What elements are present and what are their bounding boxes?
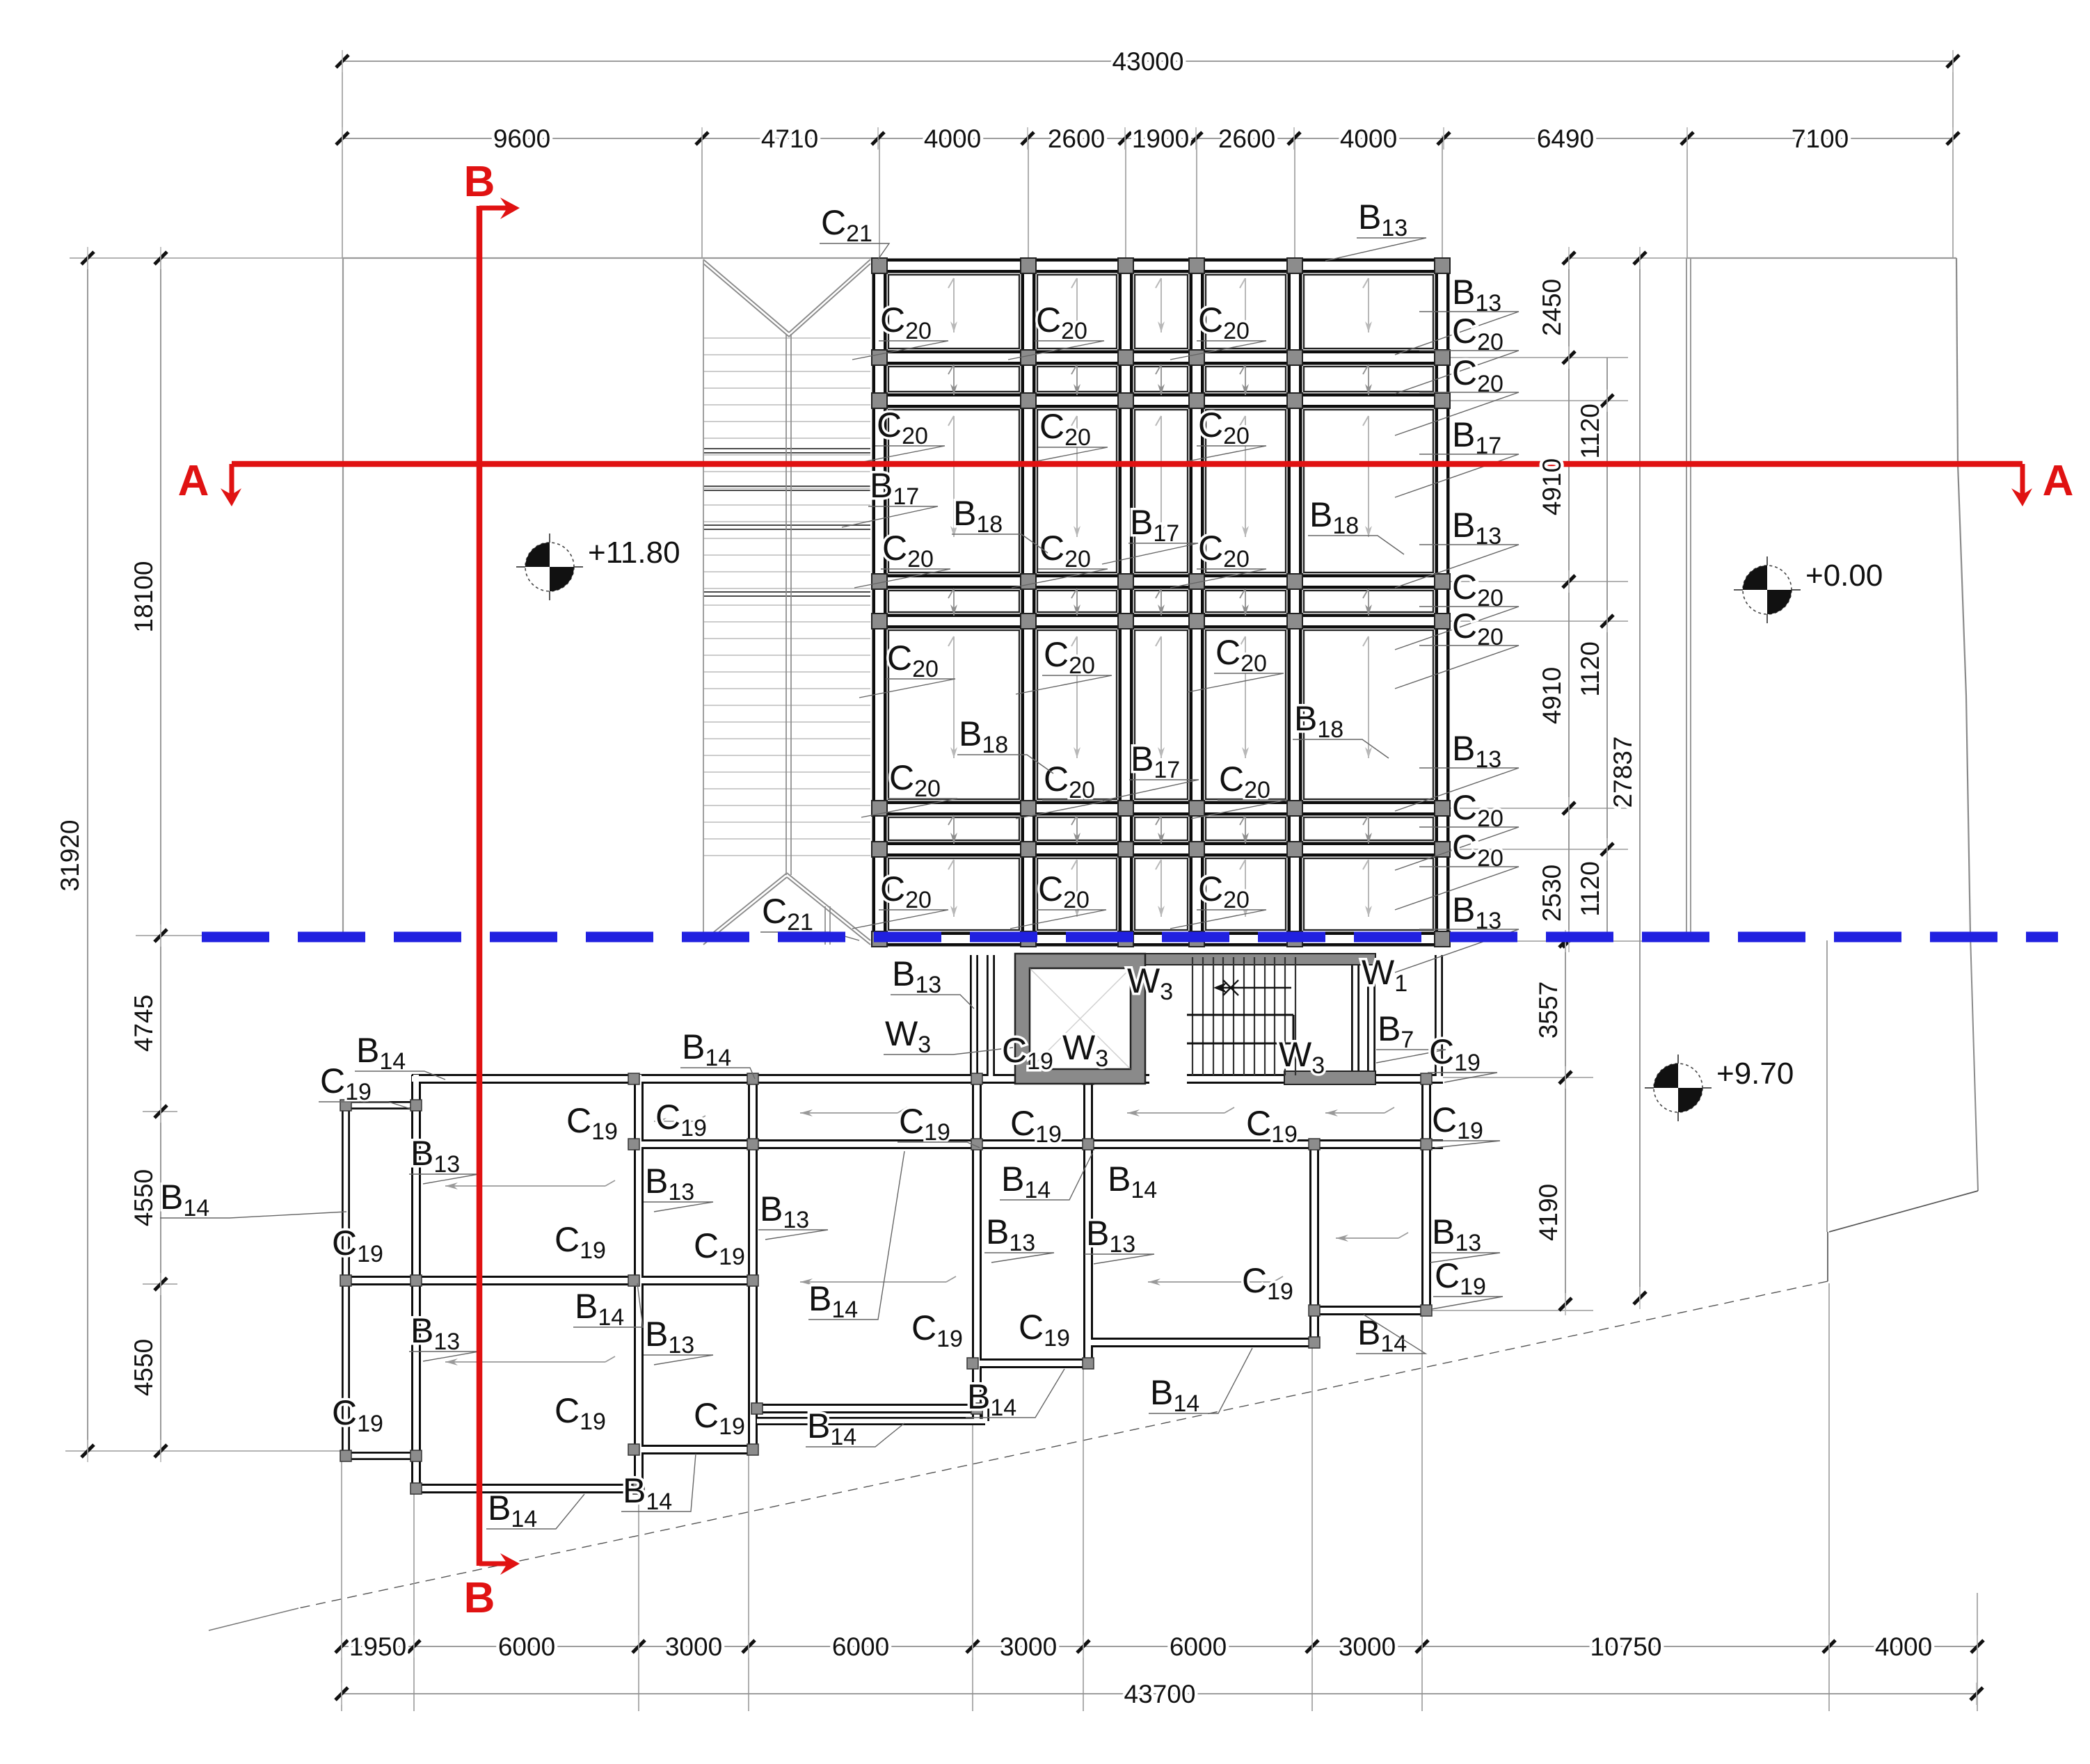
- svg-text:A: A: [178, 457, 209, 505]
- svg-text:2530: 2530: [1538, 865, 1566, 922]
- svg-text:1120: 1120: [1576, 641, 1604, 697]
- svg-text:4910: 4910: [1538, 667, 1566, 724]
- svg-text:6490: 6490: [1537, 125, 1594, 153]
- svg-text:B: B: [464, 158, 495, 206]
- svg-text:4000: 4000: [924, 125, 981, 153]
- svg-text:4190: 4190: [1534, 1184, 1563, 1241]
- svg-text:2450: 2450: [1538, 279, 1566, 336]
- svg-text:1950: 1950: [349, 1633, 406, 1661]
- svg-text:6000: 6000: [1170, 1633, 1227, 1661]
- svg-text:+9.70: +9.70: [1716, 1057, 1794, 1091]
- svg-text:6000: 6000: [498, 1633, 555, 1661]
- svg-text:3557: 3557: [1534, 981, 1563, 1039]
- svg-text:4000: 4000: [1340, 125, 1397, 153]
- svg-text:31920: 31920: [56, 820, 84, 892]
- svg-text:3000: 3000: [665, 1633, 722, 1661]
- svg-text:43000: 43000: [1112, 47, 1184, 76]
- svg-text:43700: 43700: [1124, 1680, 1196, 1708]
- svg-text:A: A: [2043, 457, 2074, 505]
- svg-text:9600: 9600: [493, 125, 550, 153]
- svg-text:4710: 4710: [761, 125, 818, 153]
- svg-text:18100: 18100: [129, 561, 158, 633]
- svg-text:6000: 6000: [832, 1633, 889, 1661]
- svg-text:+0.00: +0.00: [1805, 559, 1883, 593]
- svg-text:1120: 1120: [1576, 403, 1604, 459]
- svg-text:4550: 4550: [129, 1169, 158, 1226]
- svg-text:27837: 27837: [1609, 737, 1637, 808]
- svg-text:3000: 3000: [1339, 1633, 1396, 1661]
- svg-text:+11.80: +11.80: [588, 536, 680, 570]
- svg-text:3000: 3000: [1000, 1633, 1057, 1661]
- svg-text:1900: 1900: [1132, 125, 1189, 153]
- svg-text:4745: 4745: [129, 995, 158, 1052]
- svg-text:1120: 1120: [1576, 861, 1604, 917]
- svg-text:7100: 7100: [1792, 125, 1849, 153]
- svg-text:4550: 4550: [129, 1339, 158, 1396]
- svg-text:10750: 10750: [1590, 1633, 1662, 1661]
- svg-text:2600: 2600: [1048, 125, 1105, 153]
- svg-text:2600: 2600: [1218, 125, 1275, 153]
- svg-text:B: B: [464, 1574, 495, 1622]
- svg-text:4910: 4910: [1538, 458, 1566, 515]
- svg-text:4000: 4000: [1875, 1633, 1932, 1661]
